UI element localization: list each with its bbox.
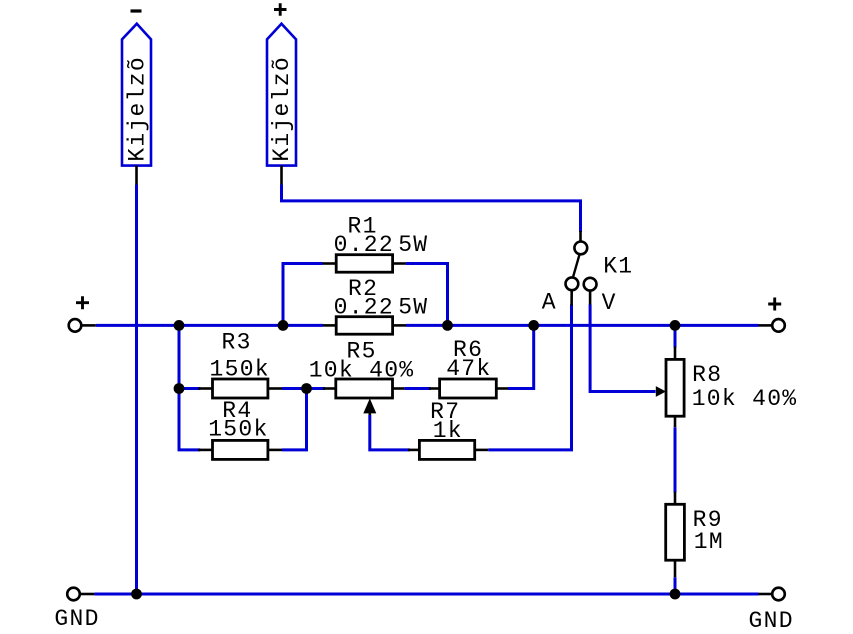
wire main bus left section (96, 324, 323, 327)
wire GND bus (94, 593, 758, 596)
wire R7 right up to switch contact A (488, 305, 571, 450)
wire main bus down to R8 (674, 325, 677, 347)
terminal + right (759, 319, 785, 332)
resistor R7 (408, 440, 488, 459)
wire R1 left riser (283, 264, 323, 326)
switch K1 (566, 242, 597, 291)
connector flag Kijelzõ minus (left) (122, 24, 151, 166)
svg-text:GND: GND (54, 606, 99, 632)
junction main-R3 branch (174, 320, 185, 331)
svg-text:R8: R8 (692, 362, 722, 388)
resistor R1 (323, 255, 406, 273)
wire left flag to GND line (135, 185, 138, 595)
label - polarity (left flag) (131, 9, 142, 12)
junction main-R8 (670, 320, 681, 331)
wire left branch riser (main to R3/R4) (179, 325, 200, 450)
wire node down to R4 right (282, 389, 307, 450)
svg-text:R3: R3 (222, 330, 252, 356)
wire R5 right to R6 left (405, 387, 431, 390)
svg-text:10k 40%: 10k 40% (309, 357, 415, 383)
wire dot to R3 left (179, 387, 200, 390)
label + (left terminal) (76, 296, 89, 309)
label + polarity (right flag) (274, 3, 287, 16)
svg-text:V: V (602, 290, 617, 316)
svg-text:5W: 5W (398, 232, 428, 258)
resistor R3 (198, 379, 282, 398)
svg-text:1M: 1M (694, 529, 724, 555)
connector flag Kijelzõ plus (right) (267, 24, 296, 166)
svg-text:GND: GND (749, 608, 794, 634)
wire R3 right to node (282, 387, 307, 390)
wire main bus right section (406, 324, 759, 327)
wire V contact down to R8 wiper (590, 305, 655, 392)
svg-text:150k: 150k (208, 417, 268, 443)
wiper arrow R8 (656, 386, 666, 397)
svg-text:47k: 47k (446, 356, 491, 382)
svg-text:Kijelzõ: Kijelzõ (269, 56, 295, 162)
resistor R2 (in line on main bus) (323, 317, 406, 335)
svg-text:1k: 1k (433, 418, 463, 444)
pin stub right flag (280, 166, 283, 185)
junction main-R1 right (442, 320, 453, 331)
svg-text:10k 40%: 10k 40% (692, 386, 798, 412)
potentiometer R8 (vertical) (666, 347, 684, 428)
label + (right terminal) (768, 298, 781, 311)
svg-text:A: A (542, 290, 557, 316)
wire R5 wiper down to R7 left (370, 415, 410, 450)
resistor R4 (198, 440, 282, 459)
pin stub left flag (135, 166, 138, 185)
wire R6 right riser to main bus (508, 325, 534, 388)
svg-text:5W: 5W (398, 295, 428, 321)
junction GND-R9 (670, 589, 681, 600)
svg-text:Kijelzõ: Kijelzõ (124, 56, 150, 162)
wire R9 bottom to GND line (674, 577, 677, 594)
junction main-R1 left (278, 320, 289, 331)
resistor R9 (vertical) (666, 492, 685, 578)
terminal GND left (67, 588, 94, 601)
wire node to R5 left (307, 387, 326, 390)
junction R3-R5 node (301, 383, 312, 394)
pin stub switch contact V (589, 291, 592, 306)
potentiometer R5 (323, 379, 405, 416)
terminal GND right (759, 588, 785, 601)
wire right flag to switch K1 common (282, 185, 581, 233)
junction main-R6 (528, 320, 539, 331)
wire R8 bottom to R9 top (674, 427, 677, 492)
wire R1 right riser (406, 264, 448, 326)
resistor R6 (429, 379, 508, 398)
svg-text:0.22: 0.22 (334, 232, 394, 258)
junction GND-left flag (131, 589, 142, 600)
pin stub switch contact A (570, 291, 573, 306)
pin stub switch common (579, 231, 582, 242)
svg-text:0.22: 0.22 (334, 295, 394, 321)
terminal + left (69, 319, 96, 332)
junction R3 left node (174, 383, 185, 394)
svg-text:150k: 150k (210, 356, 270, 382)
svg-text:K1: K1 (603, 253, 633, 279)
